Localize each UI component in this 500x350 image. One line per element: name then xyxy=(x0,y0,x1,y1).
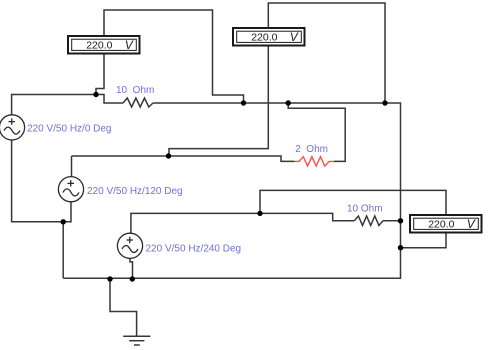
svg-text:V: V xyxy=(290,30,299,44)
resistor R2 2 Ohm red xyxy=(295,157,335,166)
svg-text:V: V xyxy=(125,38,134,52)
junction node D xyxy=(257,211,262,216)
wire V3 bottom to node G xyxy=(401,233,447,248)
junction node G xyxy=(398,245,403,250)
junction on bus x385 xyxy=(382,100,387,105)
wire V1 bottom jog to node A xyxy=(96,55,104,96)
junction node B xyxy=(61,219,66,224)
voltmeter U1 box xyxy=(68,36,140,54)
junction source3 bottom xyxy=(130,276,135,281)
AC source V1s 220V/50Hz/0deg xyxy=(0,115,25,140)
wire source3 bottom jog to bottom bus xyxy=(130,259,133,280)
svg-text:220 V/50 Hz/240 Deg: 220 V/50 Hz/240 Deg xyxy=(146,243,242,254)
wire node D riser to V3 top xyxy=(260,190,446,214)
junction on bus x288 xyxy=(286,100,291,105)
AC source V2s 220V/50Hz/120deg xyxy=(58,177,83,202)
wire node A to source V1s left rail xyxy=(12,95,96,116)
wire R3 right lead to node F xyxy=(383,220,401,222)
voltmeter U3 box xyxy=(410,215,482,233)
voltmeter U2 box xyxy=(233,28,305,46)
junction on bus x243 xyxy=(241,100,246,105)
wire ground stem xyxy=(110,279,137,336)
svg-text:2 Ohm: 2 Ohm xyxy=(295,144,328,155)
wire source3 top stub and bus to R3 xyxy=(131,213,354,233)
wire V2 bottom down and left to node C xyxy=(169,46,268,156)
svg-text:V: V xyxy=(467,217,476,231)
wire left vertical from node B down to bottom bus xyxy=(62,222,64,278)
svg-text:220.0: 220.0 xyxy=(86,40,112,52)
junction node C xyxy=(166,153,171,158)
wire R2 right riser to neutral bus xyxy=(288,103,345,161)
svg-text:10 Ohm: 10 Ohm xyxy=(347,204,383,215)
svg-text:220.0: 220.0 xyxy=(251,32,277,44)
wire node A to resistor R1 left lead xyxy=(96,95,123,104)
ground symbol xyxy=(123,336,150,345)
wire source2 top stub xyxy=(71,156,73,177)
svg-text:220 V/50 Hz/120 Deg: 220 V/50 Hz/120 Deg xyxy=(87,186,183,197)
junction node F xyxy=(398,218,403,223)
AC source V3s 220V/50Hz/240deg xyxy=(117,233,142,258)
wire V2 top to neutral bus xyxy=(268,3,385,103)
wire neutral bus R1 right across to right side xyxy=(63,103,400,278)
svg-text:220 V/50 Hz/0 Deg: 220 V/50 Hz/0 Deg xyxy=(27,123,112,134)
wire node C horizontal to R2 left xyxy=(72,156,295,161)
svg-text:10 Ohm: 10 Ohm xyxy=(116,85,154,96)
wire source1 bottom rail to source2 bottom xyxy=(12,140,71,222)
resistor R1 zigzag 10 Ohm xyxy=(123,98,153,107)
wire V1 top to neutral bus xyxy=(104,10,244,103)
junction ground tap xyxy=(107,276,112,281)
resistor R3 zigzag 10 Ohm xyxy=(354,216,383,226)
junction node A xyxy=(93,92,98,97)
svg-text:220.0: 220.0 xyxy=(428,219,454,231)
